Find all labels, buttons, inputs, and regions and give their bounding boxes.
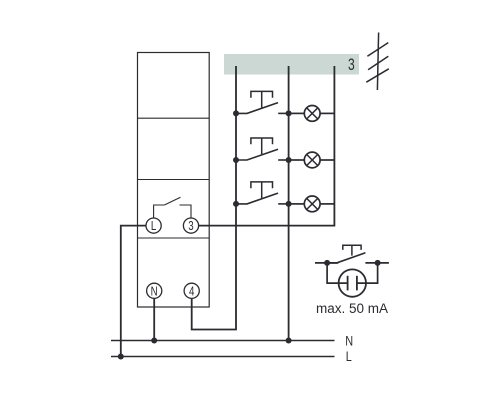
illuminated pushbutton actuator <box>343 245 361 255</box>
bus bar (3-wire riser, shaded) <box>224 54 359 75</box>
device divider 1 <box>138 117 210 119</box>
terminal L <box>146 218 161 233</box>
svg-text:N: N <box>151 285 158 298</box>
pushbutton S1 <box>236 91 289 113</box>
bottom L line <box>111 356 335 358</box>
node left of glow lamp <box>324 260 330 266</box>
node S1 right <box>286 110 292 116</box>
device divider 3 <box>138 237 210 239</box>
terminal 3 <box>183 218 198 233</box>
glow lamp wiring <box>327 263 378 283</box>
svg-text:N: N <box>345 333 353 349</box>
neutral riser wire <box>288 66 290 341</box>
wire from N to bottom N line <box>153 298 155 340</box>
terminal N <box>147 283 162 298</box>
illuminated pushbutton detail: right stub <box>365 262 389 264</box>
bottom N line <box>111 340 335 342</box>
node S2 left <box>233 157 239 163</box>
wire from terminal 3 to lamp return riser <box>199 66 335 226</box>
svg-text:3: 3 <box>188 220 193 233</box>
junction on L line <box>118 354 124 360</box>
wire from L to bottom L line <box>121 226 146 357</box>
illuminated pushbutton contact blade <box>327 253 365 263</box>
svg-text:L: L <box>151 220 156 233</box>
svg-text:L: L <box>346 349 352 365</box>
junction neutral riser on N line <box>286 338 292 344</box>
glow lamp <box>339 269 366 296</box>
internal relay contact between L and 3 <box>154 197 191 218</box>
pushbutton S2 <box>236 138 289 160</box>
node S1 left <box>233 110 239 116</box>
hatch: 3-conductor slash symbol <box>366 33 389 91</box>
svg-text:max. 50 mA: max. 50 mA <box>316 301 388 316</box>
lamp E3 <box>289 196 335 212</box>
wire from terminal 4 to pushbutton riser <box>192 66 236 330</box>
device outline (timer unit) <box>138 53 210 308</box>
node S2 right <box>286 157 292 163</box>
illuminated pushbutton detail: left stub <box>315 262 338 264</box>
lamp E2 <box>289 152 335 168</box>
lamp E1 <box>289 106 335 122</box>
node S3 right <box>286 201 292 207</box>
device divider 2 <box>138 179 210 181</box>
terminal 4 <box>184 283 199 298</box>
pushbutton S3 <box>236 182 289 204</box>
junction on N line <box>151 338 157 344</box>
svg-text:4: 4 <box>189 285 194 298</box>
svg-text:3: 3 <box>348 56 355 74</box>
node S3 left <box>233 201 239 207</box>
node right of glow lamp <box>375 260 381 266</box>
